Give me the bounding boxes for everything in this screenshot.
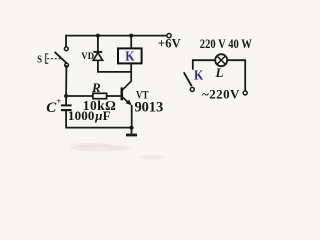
svg-text:+6V: +6V xyxy=(158,37,181,51)
wire node A to resistor xyxy=(66,95,93,97)
wire capacitor to bottom rail xyxy=(65,110,67,128)
wire left drop to contact K xyxy=(192,59,194,69)
wire top rail xyxy=(66,35,167,37)
node top-rail / diode junction dot xyxy=(96,34,100,38)
svg-text:S: S xyxy=(37,55,42,66)
svg-text:K: K xyxy=(194,69,203,84)
node B junction dot xyxy=(129,126,133,130)
relay coil K box xyxy=(118,48,142,63)
svg-text:9013: 9013 xyxy=(135,100,164,116)
wire top rail to relay coil xyxy=(130,36,132,49)
capacitor C top plate xyxy=(61,104,72,106)
svg-text:~220V: ~220V xyxy=(202,86,240,101)
switch S actuator dashed link xyxy=(47,58,61,60)
diode VD triangle xyxy=(93,53,102,61)
transistor Q1 emitter lead with arrow xyxy=(123,97,132,105)
transistor Q1 base bar xyxy=(121,87,124,100)
svg-text:1000μF: 1000μF xyxy=(68,108,111,123)
smudge artifacts xyxy=(70,143,166,159)
svg-text:C: C xyxy=(46,100,57,116)
terminal +6V circle xyxy=(167,34,171,38)
wire right drop to terminal xyxy=(244,59,246,91)
wire emitter down to node B xyxy=(131,105,133,128)
switch S top contact xyxy=(64,47,68,51)
svg-text:L: L xyxy=(215,65,224,80)
wire bottom rail xyxy=(66,127,131,129)
switch S blade xyxy=(55,52,67,63)
ground xyxy=(126,128,137,135)
relay contact K blade xyxy=(184,72,192,86)
wire resistor to base xyxy=(107,95,121,97)
svg-text:220 V 40 W: 220 V 40 W xyxy=(200,37,252,51)
wire left vertical switch to node A xyxy=(65,65,67,96)
wire lamp top rail xyxy=(193,59,245,61)
transistor Q1 collector lead xyxy=(123,63,132,89)
svg-text:K: K xyxy=(125,50,134,65)
diode VD anode wire from top rail xyxy=(97,36,99,52)
relay contact K terminal xyxy=(190,87,194,91)
lamp L xyxy=(215,54,227,66)
resistor R body xyxy=(93,93,107,98)
diode VD cathode bar xyxy=(94,51,103,53)
svg-text:VD: VD xyxy=(81,52,94,62)
svg-text:R: R xyxy=(91,80,101,95)
svg-text:+: + xyxy=(56,96,61,106)
terminal mains right xyxy=(243,91,247,95)
switch S actuator bracket xyxy=(46,54,49,63)
wire diode to relay branch xyxy=(98,60,131,72)
node top-rail / relay junction dot xyxy=(129,34,133,38)
wire node A down to capacitor xyxy=(65,96,67,105)
node A junction dot xyxy=(64,94,68,98)
switch S bottom contact xyxy=(65,63,69,67)
wire left vertical from top rail to switch xyxy=(65,35,67,47)
capacitor C bottom plate xyxy=(61,109,72,111)
